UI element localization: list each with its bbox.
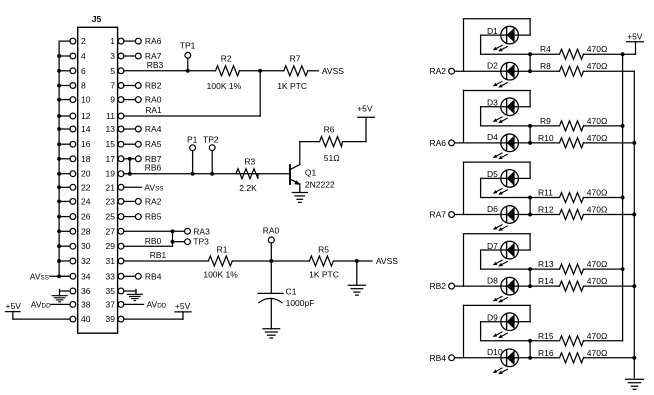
svg-text:D3: D3 bbox=[487, 97, 498, 107]
svg-text:RA4: RA4 bbox=[145, 124, 162, 134]
svg-text:470Ω: 470Ω bbox=[587, 259, 608, 269]
svg-text:100K 1%: 100K 1% bbox=[207, 81, 242, 91]
svg-text:25: 25 bbox=[106, 212, 116, 222]
svg-text:C1: C1 bbox=[286, 286, 297, 296]
svg-text:R12: R12 bbox=[538, 205, 554, 215]
svg-text:31: 31 bbox=[106, 256, 116, 266]
svg-text:470Ω: 470Ω bbox=[587, 276, 608, 286]
svg-text:8: 8 bbox=[81, 81, 86, 91]
svg-text:AVSS: AVSS bbox=[144, 182, 163, 192]
svg-text:15: 15 bbox=[106, 139, 116, 149]
svg-text:R11: R11 bbox=[538, 188, 553, 198]
svg-text:24: 24 bbox=[81, 196, 91, 206]
svg-text:470Ω: 470Ω bbox=[587, 133, 608, 143]
svg-text:AVSS: AVSS bbox=[30, 271, 49, 281]
svg-text:D5: D5 bbox=[487, 169, 498, 179]
svg-text:2: 2 bbox=[81, 36, 86, 46]
svg-text:30: 30 bbox=[81, 241, 91, 251]
svg-text:20: 20 bbox=[81, 169, 91, 179]
svg-text:+5V: +5V bbox=[627, 32, 643, 42]
svg-text:16: 16 bbox=[81, 139, 91, 149]
svg-text:RB3: RB3 bbox=[147, 60, 164, 70]
svg-text:D10: D10 bbox=[487, 347, 503, 357]
svg-text:51Ω: 51Ω bbox=[324, 153, 340, 163]
svg-text:RB2: RB2 bbox=[145, 81, 162, 91]
svg-text:RA0: RA0 bbox=[145, 95, 162, 105]
svg-text:R15: R15 bbox=[538, 331, 554, 341]
svg-text:P1: P1 bbox=[187, 134, 198, 144]
svg-text:D2: D2 bbox=[487, 61, 498, 71]
svg-text:RB2: RB2 bbox=[429, 281, 446, 291]
svg-text:470Ω: 470Ω bbox=[587, 116, 608, 126]
svg-text:27: 27 bbox=[106, 226, 116, 236]
svg-text:40: 40 bbox=[81, 314, 91, 324]
svg-text:R8: R8 bbox=[540, 61, 551, 71]
svg-text:13: 13 bbox=[106, 124, 116, 134]
svg-text:RB5: RB5 bbox=[145, 212, 162, 222]
svg-text:22: 22 bbox=[81, 182, 91, 192]
svg-text:RA2: RA2 bbox=[429, 66, 446, 76]
svg-text:RB1: RB1 bbox=[150, 250, 167, 260]
svg-text:RA1: RA1 bbox=[145, 105, 162, 115]
svg-text:33: 33 bbox=[106, 271, 116, 281]
svg-text:12: 12 bbox=[81, 111, 91, 121]
svg-text:RB6: RB6 bbox=[145, 163, 162, 173]
svg-text:+5V: +5V bbox=[175, 301, 191, 311]
svg-text:1: 1 bbox=[110, 36, 115, 46]
svg-text:37: 37 bbox=[106, 299, 116, 309]
svg-text:2.2K: 2.2K bbox=[239, 183, 257, 193]
svg-text:17: 17 bbox=[106, 154, 116, 164]
svg-text:R14: R14 bbox=[538, 276, 554, 286]
svg-text:5: 5 bbox=[110, 66, 115, 76]
svg-text:RB4: RB4 bbox=[429, 353, 446, 363]
svg-text:RA3: RA3 bbox=[193, 226, 210, 236]
svg-text:470Ω: 470Ω bbox=[587, 188, 608, 198]
svg-text:RA7: RA7 bbox=[429, 210, 446, 220]
svg-text:1000pF: 1000pF bbox=[286, 298, 315, 308]
svg-text:3: 3 bbox=[110, 51, 115, 61]
svg-text:J5: J5 bbox=[92, 14, 102, 24]
svg-text:32: 32 bbox=[81, 256, 91, 266]
svg-text:R1: R1 bbox=[217, 244, 228, 254]
svg-text:R6: R6 bbox=[324, 124, 335, 134]
svg-text:D8: D8 bbox=[487, 275, 498, 285]
svg-text:10: 10 bbox=[81, 95, 91, 105]
svg-text:21: 21 bbox=[106, 182, 116, 192]
svg-text:28: 28 bbox=[81, 226, 91, 236]
svg-text:38: 38 bbox=[81, 299, 91, 309]
svg-text:18: 18 bbox=[81, 154, 91, 164]
svg-text:19: 19 bbox=[106, 169, 116, 179]
svg-text:RA6: RA6 bbox=[145, 36, 162, 46]
svg-text:D4: D4 bbox=[487, 132, 498, 142]
svg-text:+5V: +5V bbox=[357, 104, 373, 114]
svg-text:D1: D1 bbox=[487, 26, 498, 36]
svg-text:AVSS: AVSS bbox=[322, 66, 344, 76]
svg-text:R10: R10 bbox=[538, 133, 554, 143]
svg-text:35: 35 bbox=[106, 286, 116, 296]
svg-text:9: 9 bbox=[110, 95, 115, 105]
svg-text:100K 1%: 100K 1% bbox=[203, 270, 238, 280]
svg-text:470Ω: 470Ω bbox=[587, 61, 608, 71]
svg-text:RA0: RA0 bbox=[263, 225, 280, 235]
svg-text:11: 11 bbox=[106, 111, 115, 121]
svg-text:4: 4 bbox=[81, 51, 86, 61]
svg-text:D6: D6 bbox=[487, 204, 498, 214]
svg-text:RA5: RA5 bbox=[145, 139, 162, 149]
svg-text:TP2: TP2 bbox=[203, 134, 219, 144]
svg-text:26: 26 bbox=[81, 212, 91, 222]
svg-text:1K PTC: 1K PTC bbox=[309, 270, 339, 280]
svg-text:R7: R7 bbox=[290, 54, 301, 64]
svg-text:R4: R4 bbox=[540, 44, 551, 54]
svg-text:1K PTC: 1K PTC bbox=[277, 81, 307, 91]
svg-text:39: 39 bbox=[106, 314, 116, 324]
svg-text:AVSS: AVSS bbox=[376, 256, 398, 266]
svg-text:RB4: RB4 bbox=[145, 271, 162, 281]
svg-text:470Ω: 470Ω bbox=[587, 205, 608, 215]
svg-text:R3: R3 bbox=[244, 157, 255, 167]
svg-text:R13: R13 bbox=[538, 259, 554, 269]
svg-text:R2: R2 bbox=[221, 54, 232, 64]
svg-text:Q1: Q1 bbox=[305, 167, 317, 177]
svg-text:470Ω: 470Ω bbox=[587, 44, 608, 54]
svg-text:D9: D9 bbox=[487, 312, 498, 322]
svg-text:RA2: RA2 bbox=[145, 196, 162, 206]
svg-text:TP1: TP1 bbox=[180, 41, 196, 51]
svg-text:D7: D7 bbox=[487, 241, 498, 251]
svg-text:7: 7 bbox=[110, 81, 115, 91]
svg-text:29: 29 bbox=[106, 241, 116, 251]
svg-text:470Ω: 470Ω bbox=[587, 348, 608, 358]
svg-text:R16: R16 bbox=[538, 348, 554, 358]
svg-text:14: 14 bbox=[81, 124, 91, 134]
svg-text:23: 23 bbox=[106, 196, 116, 206]
svg-text:2N2222: 2N2222 bbox=[305, 180, 335, 190]
svg-text:470Ω: 470Ω bbox=[587, 331, 608, 341]
svg-text:RB0: RB0 bbox=[145, 236, 162, 246]
svg-text:36: 36 bbox=[81, 286, 91, 296]
svg-text:AVDD: AVDD bbox=[147, 299, 167, 309]
svg-text:RA6: RA6 bbox=[429, 138, 446, 148]
svg-text:R5: R5 bbox=[318, 244, 329, 254]
svg-text:TP3: TP3 bbox=[193, 237, 209, 247]
svg-text:AVDD: AVDD bbox=[31, 299, 51, 309]
svg-text:R9: R9 bbox=[540, 116, 551, 126]
svg-text:+5V: +5V bbox=[6, 301, 22, 311]
svg-text:34: 34 bbox=[81, 271, 91, 281]
svg-text:6: 6 bbox=[81, 66, 86, 76]
